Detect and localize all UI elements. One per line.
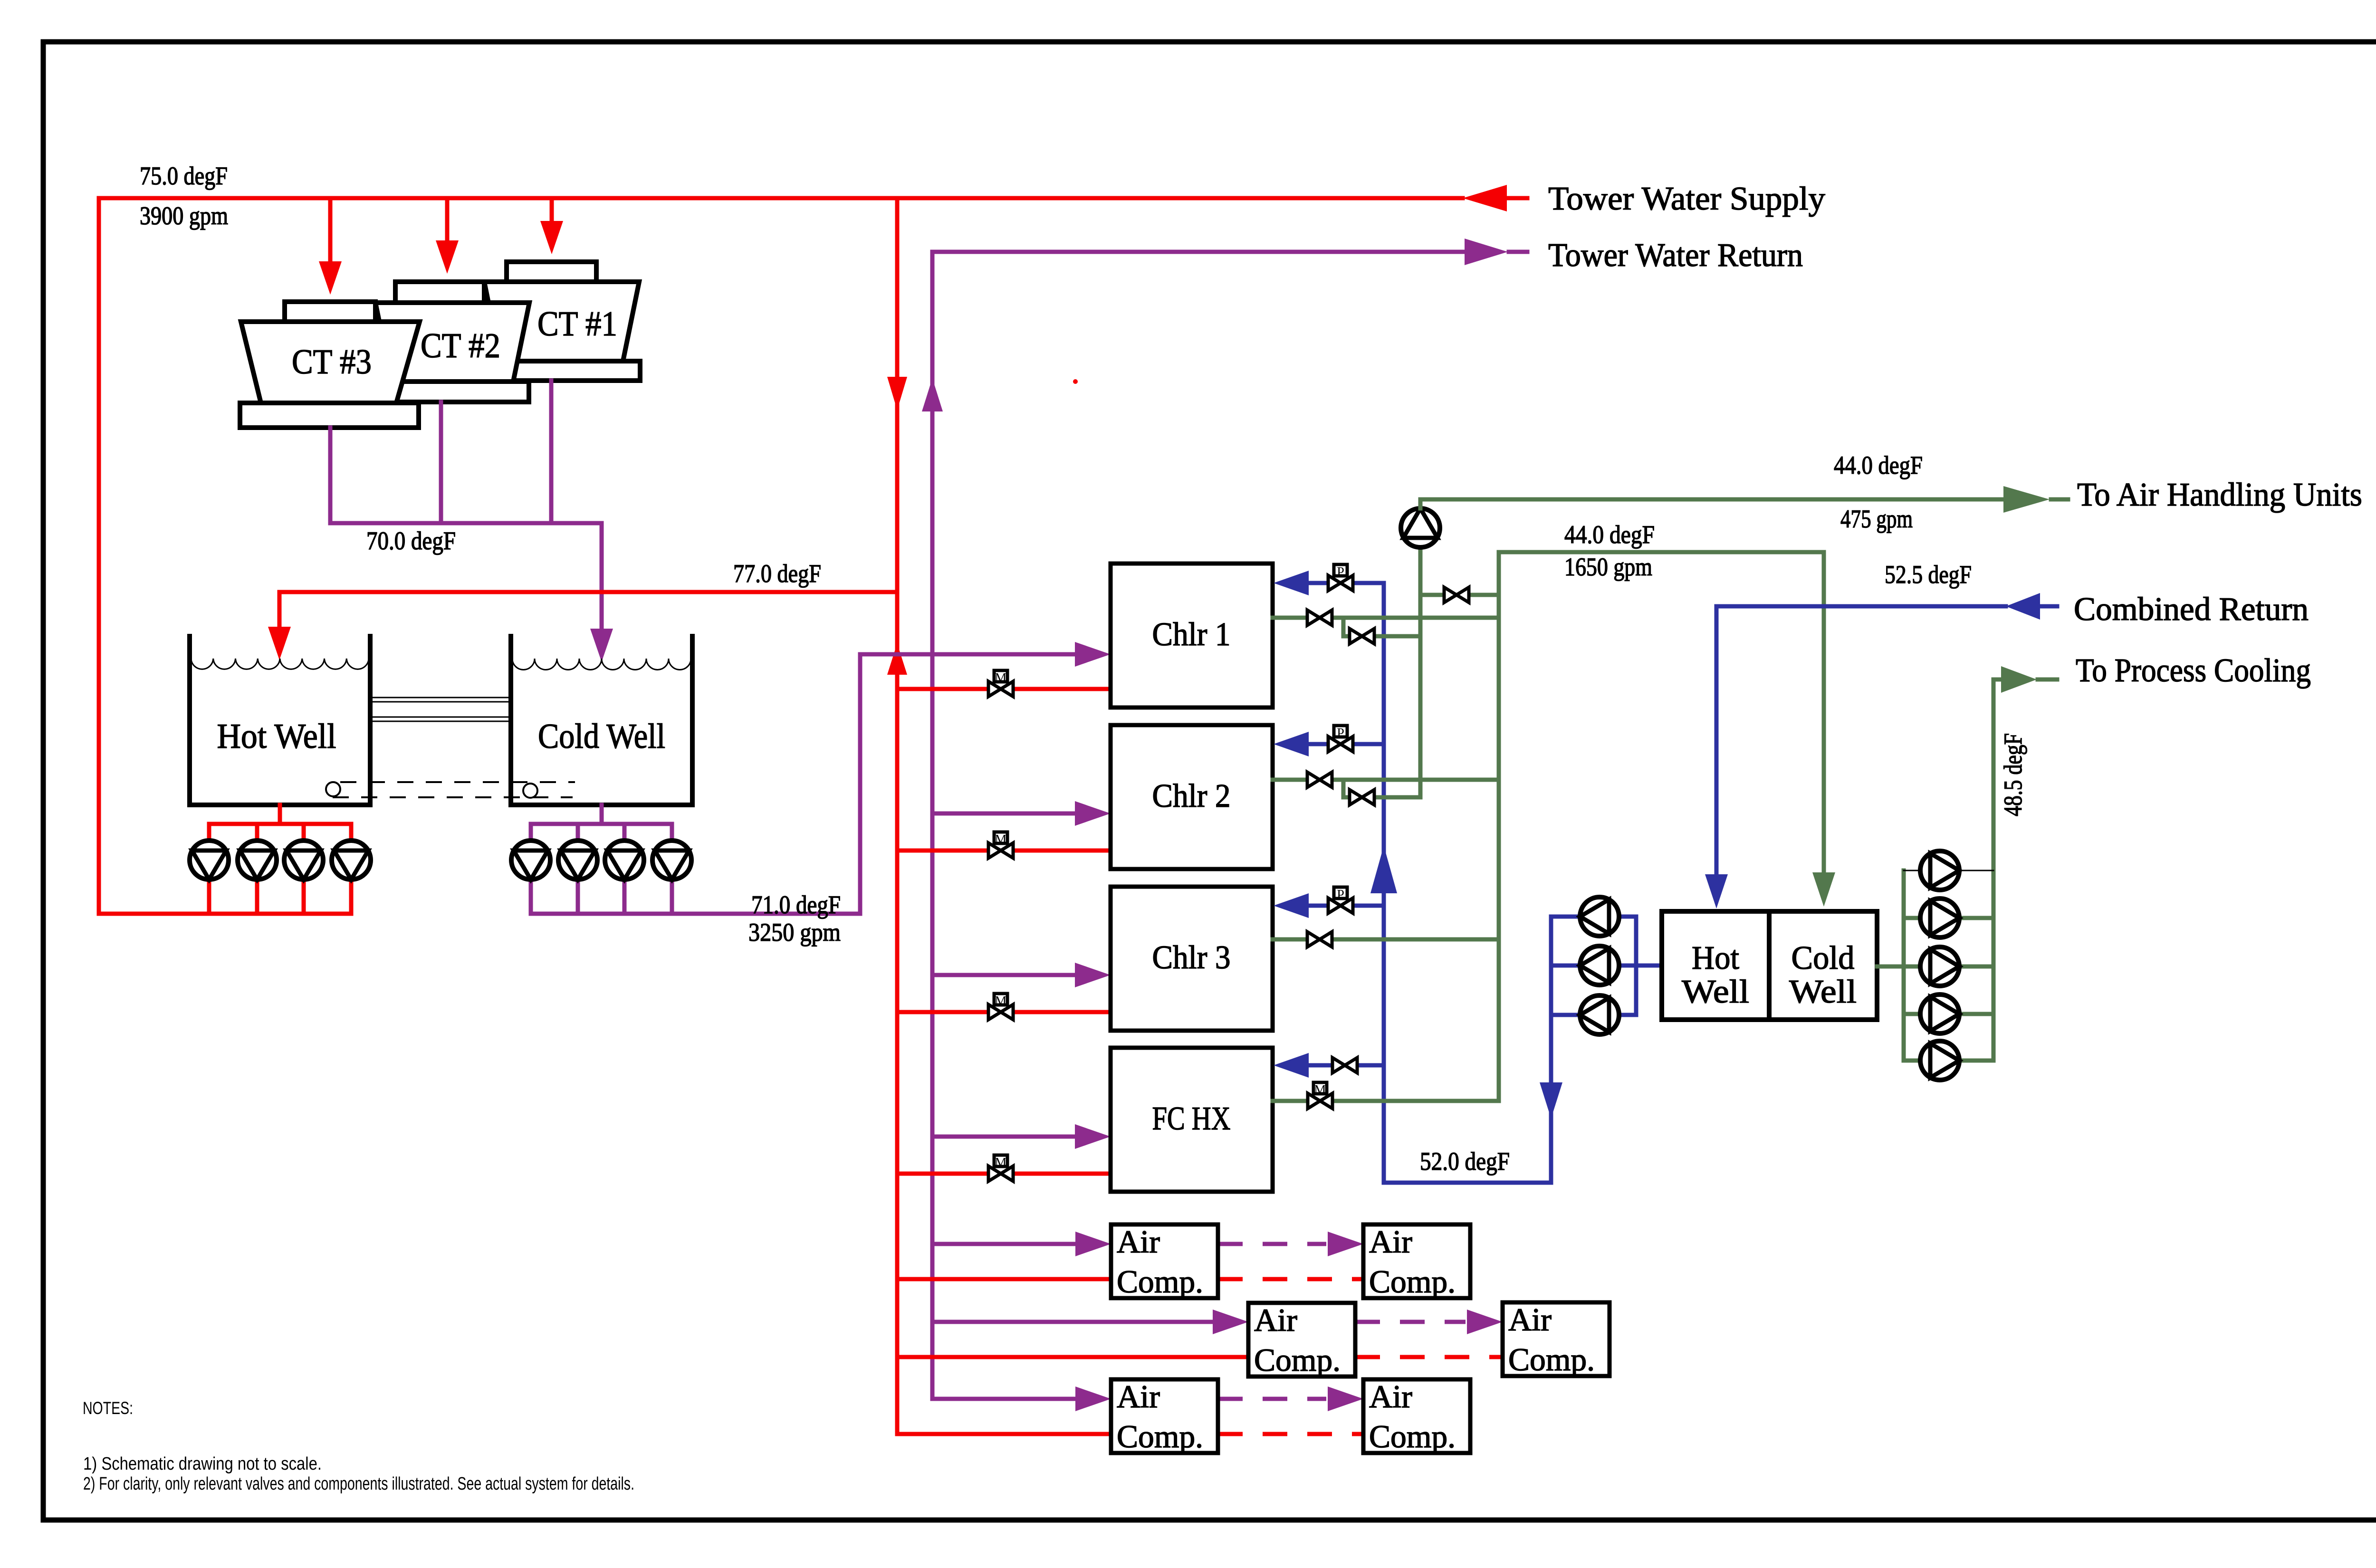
wire blue small-well pump row 2: [1551, 964, 1662, 968]
wire purple tower return header: [932, 250, 1465, 254]
arrow green into small cold well: [1812, 872, 1835, 907]
arrow purple into FC HX: [1075, 1124, 1111, 1149]
arrow red into CT#2: [436, 240, 459, 274]
pump chilled water distribution: [1401, 508, 1440, 547]
arrow purple into Chlr 2: [1075, 801, 1111, 826]
wire blue small-well pump row 1: [1551, 915, 1636, 919]
svg-text:P: P: [1337, 726, 1344, 741]
wire purple branch to Chlr 1: [860, 652, 1075, 657]
wire purple dashed air comp row 1: [1218, 1242, 1326, 1246]
arrow purple into Chlr 3: [1075, 963, 1111, 987]
svg-text:Chlr 2: Chlr 2: [1152, 778, 1231, 814]
pump hot well CW pump 1: [190, 841, 229, 880]
equipment box Chlr 1: [1111, 564, 1273, 708]
wire purple drop to cold well: [600, 523, 604, 629]
wire red dashed air comp row 3: [1218, 1432, 1363, 1436]
wire red branch to Chlr 1: [897, 687, 1111, 691]
arrow tower water return (points right): [1465, 239, 1508, 265]
air compressor box row 2 left: [1248, 1303, 1355, 1377]
arrow blue down on riser: [1540, 1082, 1562, 1119]
valve on pump crossover: [1444, 587, 1469, 602]
svg-text:CT #2: CT #2: [421, 326, 500, 365]
wire red hot well pump 4 riser: [349, 824, 354, 914]
svg-text:Chlr 1: Chlr 1: [1152, 616, 1231, 653]
wire blue drop to small hot well: [1715, 606, 1719, 876]
wire blue branch into FC HX: [1309, 1063, 1384, 1068]
wire green stub at process cooling label: [2038, 678, 2057, 682]
red dot artifact: [1073, 379, 1078, 384]
svg-text:475 gpm: 475 gpm: [1840, 505, 1913, 533]
arrow tower water supply (points left): [1463, 185, 1507, 211]
hot well tank: [190, 634, 370, 805]
air compressor box row 3 right: [1363, 1379, 1470, 1453]
wire blue small-well pump row 3: [1551, 1013, 1636, 1017]
equipment box Chlr 2: [1111, 725, 1273, 869]
wire red drop to hot well: [278, 592, 282, 627]
wire blue main vertical: [1382, 583, 1386, 1183]
pump cold well TW pump 3: [605, 841, 644, 880]
pump process CHW pump 4: [1920, 994, 1959, 1033]
svg-text:44.0 degF: 44.0 degF: [1834, 451, 1923, 479]
pump cold well TW pump 2: [558, 841, 597, 880]
svg-text:1) Schematic drawing not to s: 1) Schematic drawing not to scale.: [83, 1454, 322, 1474]
wire red branch to FC HX: [897, 1172, 1111, 1176]
wire red hot well pump 1 riser: [207, 824, 211, 914]
svg-text:44.0 degF: 44.0 degF: [1564, 520, 1655, 549]
svg-text:Comp.: Comp.: [1369, 1263, 1456, 1300]
cooling tower CT#2 body: [375, 303, 529, 382]
svg-text:To Air Handling Units: To Air Handling Units: [2077, 477, 2362, 513]
svg-text:1650 gpm: 1650 gpm: [1564, 553, 1652, 581]
equalizer pipe upper: [370, 697, 511, 698]
wire green right pump row 3: [1904, 965, 1993, 969]
wire red tower supply header: [99, 196, 1463, 201]
air compressor box row 3 left: [1111, 1379, 1218, 1453]
svg-text:Air: Air: [1369, 1378, 1412, 1415]
arrow purple dashed into air comp row 3 right: [1328, 1386, 1363, 1411]
svg-text:P: P: [1337, 565, 1344, 580]
wire red branch to Chlr 3: [897, 1010, 1111, 1014]
cooling tower CT#1 riser box: [507, 262, 596, 282]
wire blue small-well pump connector right: [1634, 917, 1638, 1015]
wire blue branch into Chlr 1: [1309, 581, 1384, 585]
wire blue stub at combined return label: [2040, 604, 2057, 609]
svg-text:3900 gpm: 3900 gpm: [140, 201, 228, 230]
wire purple CT#1 outlet: [549, 381, 554, 523]
wire purple cold well pump 3 riser: [623, 824, 627, 914]
wire green right pump row 2: [1904, 916, 1993, 920]
wire green drop to cold well (small): [1822, 552, 1826, 874]
wire red hot well pump suction manifold: [209, 822, 351, 826]
svg-text:Air: Air: [1117, 1378, 1160, 1415]
wire green Chlr 2 outlet: [1273, 778, 1499, 782]
arrow purple into air comp row 3 left: [1075, 1386, 1111, 1411]
air compressor box row 1 left: [1111, 1224, 1218, 1298]
cold well water line: [512, 659, 691, 670]
svg-text:Tower Water Supply: Tower Water Supply: [1548, 181, 1825, 217]
wire red hot well pump 2 riser: [255, 824, 259, 914]
valve P on blue branch Chlr 1: [1328, 575, 1353, 591]
wire green Chlr 1 outlet: [1273, 616, 1499, 620]
valve on Chlr 3 outlet: [1307, 932, 1332, 947]
wire blue branch into Chlr 3: [1309, 904, 1384, 908]
arrow blue into Chlr 3: [1274, 893, 1309, 918]
svg-text:2) For clarity, only relevant: 2) For clarity, only relevant valves and…: [83, 1474, 634, 1494]
svg-text:Hot: Hot: [1692, 940, 1740, 976]
wire purple cold well pump suction manifold: [531, 822, 672, 826]
svg-text:Combined Return: Combined Return: [2074, 591, 2309, 628]
svg-text:To Process Cooling: To Process Cooling: [2076, 652, 2311, 689]
wire red dashed air comp row 2: [1355, 1355, 1503, 1359]
wire purple branch to Chlr 3: [932, 973, 1075, 977]
small cold well box: [1769, 911, 1877, 1020]
wire green cold well outlet stub: [1877, 965, 1904, 969]
wire red main vertical: [895, 198, 900, 1434]
suction pipe inlet circle hot well: [326, 782, 340, 796]
svg-text:Comp.: Comp.: [1369, 1418, 1456, 1454]
svg-text:CT #3: CT #3: [292, 343, 372, 382]
equipment box Chlr 3: [1111, 887, 1273, 1031]
svg-text:Air: Air: [1254, 1302, 1297, 1338]
valve M on FC HX outlet: [1308, 1093, 1332, 1109]
wire blue riser from hot well pumps: [1549, 1015, 1553, 1183]
svg-text:Hot Well: Hot Well: [217, 717, 336, 756]
cooling tower CT#2 riser box: [395, 282, 484, 303]
svg-text:M: M: [995, 832, 1007, 847]
svg-text:Comp.: Comp.: [1254, 1342, 1341, 1378]
valve on Chlr 2 outlet: [1307, 772, 1332, 787]
wire purple cold-well pump vertical: [858, 654, 862, 914]
arrow blue up on main vertical: [1370, 846, 1397, 893]
cooling tower CT#3 base: [240, 403, 419, 428]
wire purple dashed air comp row 2: [1355, 1320, 1466, 1324]
cooling tower CT#3 body: [241, 322, 420, 403]
arrow green to process cooling: [2001, 666, 2037, 693]
svg-text:M: M: [995, 994, 1007, 1009]
equipment box FC HX: [1111, 1048, 1273, 1192]
svg-text:Well: Well: [1789, 974, 1857, 1010]
wire red to air comp row 3: [897, 1432, 1111, 1436]
arrow red into hot well: [268, 627, 291, 660]
valve M on red branch to Chlr 1: [988, 681, 1013, 697]
valve M on red branch to Chlr 3: [988, 1004, 1013, 1020]
svg-text:M: M: [1314, 1083, 1326, 1098]
cold well tank: [511, 634, 692, 805]
svg-text:Tower Water Return: Tower Water Return: [1548, 237, 1803, 274]
svg-text:52.5 degF: 52.5 degF: [1885, 560, 1972, 589]
valve M on red branch to Chlr 2: [988, 843, 1013, 858]
wire purple CT#3 outlet: [328, 428, 333, 523]
hot well water line: [191, 659, 369, 669]
wire purple cold well pump 4 riser: [670, 824, 674, 914]
wire red drop to CT#2: [445, 198, 450, 241]
pump hot well CW pump 4: [332, 841, 371, 880]
cooling tower CT#1 body: [484, 282, 639, 361]
arrow green to air handling units: [2003, 486, 2050, 513]
svg-text:3250 gpm: 3250 gpm: [748, 918, 841, 947]
valve on Chlr 1 bypass: [1350, 629, 1374, 644]
wire purple CT#2 outlet: [439, 402, 443, 523]
wire red left riser: [97, 198, 101, 914]
valve M on red branch to FC HX: [988, 1166, 1013, 1181]
arrow blue into Chlr 1: [1274, 571, 1309, 595]
svg-text:Air: Air: [1508, 1301, 1552, 1338]
wire purple to air comp row 3: [932, 1397, 1076, 1401]
pump process CHW pump 2: [1920, 899, 1959, 937]
wire red to air comp row 2: [897, 1355, 1248, 1359]
wire purple branch to FC HX: [932, 1135, 1075, 1139]
arrow purple dashed into air comp row 2 right: [1467, 1310, 1503, 1334]
svg-text:Cold: Cold: [1792, 940, 1855, 976]
arrow blue into small hot well: [1705, 874, 1728, 908]
arrow blue into FC HX: [1274, 1053, 1309, 1078]
pump chilled return pump 1: [1580, 897, 1619, 936]
wire green pump crossover: [1420, 593, 1499, 597]
arrow blue combined return (points left): [2006, 593, 2040, 620]
small hot well box: [1662, 911, 1769, 1020]
wire red drop to CT#1: [550, 198, 554, 222]
cooling tower CT#2 base: [394, 382, 529, 402]
wire green chlr supply vertical: [1497, 552, 1501, 1101]
pump cold well TW pump 1: [511, 841, 550, 880]
svg-text:48.5 degF: 48.5 degF: [1999, 733, 2027, 816]
wire purple branch to Chlr 2: [932, 812, 1075, 816]
svg-text:75.0 degF: 75.0 degF: [140, 162, 228, 190]
wire red dashed air comp row 1: [1218, 1277, 1363, 1281]
arrow purple into cold well: [590, 629, 613, 662]
svg-text:Cold Well: Cold Well: [538, 717, 665, 756]
valve on Chlr 2 bypass: [1350, 790, 1374, 805]
svg-text:Comp.: Comp.: [1117, 1418, 1203, 1454]
svg-text:77.0 degF: 77.0 degF: [733, 559, 821, 588]
wire green to process cooling: [1993, 678, 2001, 682]
wire green right pump row 4: [1904, 1012, 1993, 1016]
wire red branch to Chlr 2: [897, 849, 1111, 853]
wire purple cold well pump 1 riser: [529, 824, 533, 914]
wire blue small-well pump manifold left: [1549, 917, 1553, 1015]
pump process CHW pump 1: [1920, 851, 1959, 890]
air compressor box row 1 right: [1363, 1224, 1470, 1298]
pump hot well CW pump 2: [238, 841, 277, 880]
svg-text:Comp.: Comp.: [1508, 1341, 1595, 1377]
air compressor box row 2 right: [1503, 1302, 1610, 1376]
pump chilled return pump 3: [1580, 995, 1619, 1034]
svg-text:NOTES:: NOTES:: [83, 1398, 133, 1418]
pump hot well CW pump 3: [284, 841, 323, 880]
wire green pump suction vertical: [1418, 547, 1423, 797]
wire green to air handling units header: [1420, 497, 2003, 502]
wire red hot well pump 3 riser: [302, 824, 306, 914]
equalizer pipe lower: [370, 717, 511, 718]
arrow red up on main vertical: [887, 643, 907, 675]
svg-text:CT #1: CT #1: [537, 305, 617, 344]
svg-text:52.0 degF: 52.0 degF: [1420, 1147, 1510, 1176]
wire green FC HX outlet: [1273, 1099, 1499, 1103]
wire green right pump manifold right / 48.5 riser: [1992, 679, 1996, 1061]
svg-text:P: P: [1337, 888, 1344, 902]
wire green right pump row 5: [1904, 1059, 1993, 1063]
cooling tower CT#3 riser box: [285, 302, 375, 322]
wire green stub at AHU label: [2051, 497, 2068, 502]
pump cold well TW pump 4: [652, 841, 691, 880]
wire purple stub at tower water return label: [1509, 250, 1527, 254]
wire purple cold well pump 2 riser: [576, 824, 580, 914]
svg-text:Comp.: Comp.: [1117, 1263, 1203, 1300]
wire green Chlr 3 outlet: [1273, 937, 1499, 942]
arrow red into CT#1: [540, 221, 563, 254]
wire thin black right pump row 1: [1904, 870, 1993, 871]
wire blue combined return header: [1716, 604, 2006, 609]
svg-text:M: M: [995, 671, 1007, 686]
arrow purple into air comp row 2 left: [1213, 1310, 1248, 1334]
svg-text:FC HX: FC HX: [1152, 1100, 1231, 1137]
wire purple cold-well pump manifold: [531, 912, 860, 916]
svg-text:Well: Well: [1682, 974, 1749, 1010]
svg-text:Chlr 3: Chlr 3: [1152, 939, 1231, 976]
cooling tower CT#1 base: [498, 361, 640, 381]
suction pipe inlet circle cold well: [523, 784, 537, 798]
valve on Chlr 1 outlet: [1307, 610, 1332, 625]
wire purple main vertical: [930, 252, 935, 1399]
valve P on blue branch Chlr 2: [1328, 736, 1353, 752]
arrow purple into Chlr 1: [1075, 642, 1111, 667]
wire purple CT return manifold: [330, 521, 602, 526]
wire red stub at tower water supply label: [1507, 196, 1527, 201]
svg-text:71.0 degF: 71.0 degF: [751, 890, 841, 919]
svg-text:70.0 degF: 70.0 degF: [366, 526, 456, 555]
svg-text:Air: Air: [1117, 1224, 1160, 1260]
wire purple to air comp row 1: [932, 1242, 1076, 1246]
svg-text:M: M: [995, 1156, 1007, 1170]
arrow purple dashed into air comp row 1 right: [1328, 1232, 1363, 1256]
arrow purple up on main vertical: [922, 378, 943, 411]
wire green Chlr 2 bypass: [1341, 780, 1346, 797]
wire blue branch into Chlr 2: [1309, 742, 1384, 746]
arrow red into CT#3: [319, 261, 342, 295]
arrow blue into Chlr 2: [1274, 732, 1309, 756]
arrow purple into air comp row 1 left: [1075, 1232, 1111, 1256]
wire purple dashed air comp row 3: [1218, 1397, 1326, 1401]
wire red drop to CT#3: [328, 198, 333, 262]
wire green 44/1650 header: [1499, 550, 1824, 555]
dashed suction pipe: [340, 781, 575, 783]
wire red 77degF header: [279, 590, 897, 594]
svg-text:Air: Air: [1369, 1224, 1412, 1260]
wire green Chlr 1 bypass: [1341, 618, 1346, 636]
valve on blue branch FC HX: [1332, 1058, 1357, 1073]
pump process CHW pump 5: [1920, 1041, 1959, 1080]
wire purple to air comp row 2: [932, 1320, 1213, 1324]
wire red to air comp row 1: [897, 1277, 1111, 1281]
arrow red down on main vertical: [887, 377, 907, 410]
pump process CHW pump 3: [1920, 947, 1959, 986]
pump chilled return pump 2: [1580, 946, 1619, 985]
wire green right pump manifold left: [1902, 870, 1906, 1061]
wire blue bottom run 52.0: [1384, 1181, 1551, 1185]
valve P on blue branch Chlr 3: [1328, 898, 1353, 913]
wire red hot-well pump discharge manifold: [99, 912, 351, 916]
